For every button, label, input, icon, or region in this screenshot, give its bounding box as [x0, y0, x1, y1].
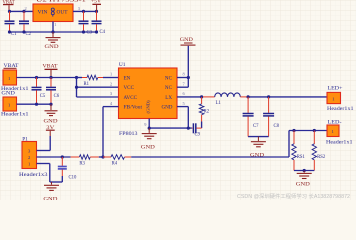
ground symbol below C7 C8	[250, 137, 266, 159]
header P4 LED+ label	[328, 87, 343, 92]
node VCC branch	[75, 86, 78, 89]
node C7 top	[247, 95, 250, 98]
ground symbol top section	[45, 32, 61, 50]
wire P1 pin3 to 3V	[37, 150, 51, 152]
svg-text:VCC: VCC	[124, 85, 135, 91]
svg-text:R4: R4	[112, 162, 118, 167]
pin number 7 (U1)	[183, 81, 186, 86]
svg-text:C2: C2	[26, 32, 32, 37]
svg-text:1: 1	[54, 22, 56, 27]
svg-text:R2: R2	[204, 110, 210, 115]
resistor R1	[77, 75, 119, 87]
header P1 designator	[22, 137, 28, 143]
node regulator GND	[51, 30, 54, 33]
wire ground net to C9	[149, 127, 192, 129]
svg-text:GND: GND	[45, 45, 60, 50]
capacitor C8	[263, 97, 280, 137]
power port VBAT (top left)	[3, 0, 16, 11]
wire GND to NC pins	[187, 46, 189, 87]
wire R4 to sense resistors	[131, 131, 327, 158]
resistor RS2	[312, 131, 326, 171]
header P5 LED- label	[328, 121, 342, 126]
ground symbol below P1	[43, 182, 59, 203]
svg-text:GND: GND	[43, 198, 58, 201]
label C3	[87, 31, 93, 36]
node C6 bottom	[49, 103, 52, 106]
node FB junction	[101, 155, 104, 158]
wire pin 5 GND	[177, 107, 188, 129]
svg-text:U1: U1	[119, 62, 126, 68]
svg-text:L1: L1	[216, 101, 222, 106]
svg-text:C9: C9	[195, 132, 201, 137]
node NC tie	[187, 76, 190, 79]
header P2 VBAT label	[4, 64, 19, 69]
node C2 top	[22, 10, 25, 13]
node C1 bottom	[8, 30, 11, 33]
svg-text:AVCC: AVCC	[124, 95, 138, 101]
node pin5 drop	[187, 127, 190, 130]
svg-text:GND: GND	[250, 154, 265, 159]
pin number 1 (U1)	[110, 72, 112, 77]
svg-text:1: 1	[110, 72, 112, 77]
wire output to LED+	[248, 96, 327, 98]
ground symbol below U1	[141, 128, 157, 151]
svg-text:R1: R1	[84, 82, 90, 87]
label C1	[11, 32, 17, 37]
pin number 3	[78, 6, 81, 11]
capacitor C1	[5, 11, 15, 32]
header P4 (LED+ Header1x1)	[327, 92, 354, 112]
capacitor C5	[32, 78, 46, 105]
node C5 top	[35, 76, 38, 79]
svg-text:CSDN @深圳硬件工程师学习 长A13828798872: CSDN @深圳硬件工程师学习 长A13828798872	[237, 192, 350, 200]
pin number 6 (U1)	[183, 91, 186, 96]
svg-text:RS2: RS2	[317, 155, 326, 160]
wire GND header to capacitors	[17, 103, 52, 105]
node pin9	[148, 127, 151, 130]
svg-text:GND: GND	[161, 105, 172, 111]
node C3 top	[82, 10, 85, 13]
header P3 GND label	[1, 92, 15, 97]
capacitor C10	[58, 157, 77, 182]
node R1 junction	[75, 76, 78, 79]
resistor R3	[71, 155, 103, 167]
ground symbol below C6	[44, 104, 59, 124]
op-amp U1 FP8013	[119, 62, 178, 137]
svg-text:NC: NC	[165, 85, 173, 91]
node C4 bottom	[95, 30, 98, 33]
svg-text:LX: LX	[165, 95, 172, 101]
svg-text:VBAT: VBAT	[43, 63, 59, 69]
regulator U2 designator text (clipped at top)	[36, 0, 87, 3]
wire VBAT to regulator VIN	[9, 10, 33, 12]
node RS bottom	[303, 169, 306, 172]
node LX	[200, 95, 203, 98]
svg-text:Header1x1: Header1x1	[1, 113, 29, 118]
wire P1 pin2	[37, 156, 71, 158]
watermark	[237, 192, 350, 200]
node C8 top	[267, 95, 270, 98]
header P2 (VBAT Header1x1)	[1, 70, 29, 92]
svg-text:U2 HT7533-1: U2 HT7533-1	[36, 0, 87, 3]
node RS2 top	[313, 129, 316, 132]
svg-text:FP8013: FP8013	[119, 131, 138, 137]
node RS1 top	[292, 129, 295, 132]
node C5 bottom	[35, 103, 38, 106]
wire LX output	[177, 96, 203, 98]
wire pin 9 ground net	[148, 119, 150, 129]
wire P1 pin1 to ground	[37, 164, 63, 183]
capacitor C2	[19, 11, 29, 32]
svg-text:C8: C8	[274, 124, 280, 129]
node C3 bottom	[82, 30, 85, 33]
node C6 top	[49, 76, 52, 79]
resistor R4	[103, 155, 131, 167]
svg-text:EN: EN	[124, 75, 131, 81]
wire regulator OUT to +5V	[73, 10, 97, 12]
pin number 2	[25, 6, 27, 11]
power port GND above U1	[180, 38, 196, 45]
regulator U2	[33, 4, 73, 22]
svg-text:GND: GND	[180, 38, 194, 43]
svg-text:(GND): (GND)	[146, 100, 151, 113]
svg-text:C5: C5	[40, 94, 46, 99]
node C2 bottom	[22, 30, 25, 33]
svg-text:GND: GND	[44, 119, 59, 124]
svg-text:C4: C4	[100, 30, 106, 35]
svg-text:C7: C7	[253, 124, 259, 129]
svg-text:GND: GND	[141, 146, 156, 151]
svg-text:OUT: OUT	[57, 11, 68, 16]
wire VCC/AVCC bus	[77, 78, 119, 98]
svg-text:2: 2	[25, 6, 27, 11]
svg-text:C1: C1	[11, 32, 17, 37]
pin number 4 (U1)	[110, 101, 113, 106]
wire C7 C8 bottom	[248, 136, 269, 138]
label C4	[100, 30, 106, 35]
svg-text:RS1: RS1	[297, 155, 306, 160]
power port 3V	[46, 125, 55, 151]
svg-text:C10: C10	[69, 176, 77, 181]
svg-text:FB/Vout: FB/Vout	[124, 105, 143, 111]
wire VBAT rail	[17, 77, 77, 79]
power port VBAT (middle)	[43, 63, 59, 77]
svg-text:VIN: VIN	[38, 11, 49, 16]
pin number 9 (U1)	[144, 122, 147, 127]
capacitor C7	[243, 97, 260, 137]
ground symbol below RS	[296, 171, 312, 188]
svg-text:C3: C3	[87, 31, 93, 36]
resistor RS1	[292, 131, 306, 171]
svg-text:Header1x3: Header1x3	[19, 173, 48, 178]
capacitor C9	[192, 123, 202, 137]
pin number 3 (U1)	[110, 91, 113, 96]
wire pin 7	[177, 86, 188, 88]
capacitor C6	[46, 78, 60, 105]
pin number 5 (U1)	[183, 101, 186, 106]
wire pin 8	[177, 77, 188, 79]
svg-text:GND: GND	[1, 92, 15, 97]
svg-text:Header1x1: Header1x1	[327, 107, 354, 112]
regulator GND pin wire	[53, 22, 57, 33]
svg-text:LED+: LED+	[328, 87, 343, 92]
svg-text:GND: GND	[296, 182, 311, 187]
node C10 top	[61, 155, 64, 158]
node C4 top	[95, 10, 98, 13]
pin number 2 (U1)	[110, 81, 112, 86]
capacitor C3	[79, 11, 89, 32]
header P5 (LED- Header1x1)	[326, 125, 353, 146]
wire FB/Vout feedback	[103, 107, 119, 157]
wire ground rail top section	[10, 31, 97, 33]
wire RS bottoms	[294, 170, 314, 172]
svg-text:2: 2	[110, 81, 112, 86]
svg-text:R3: R3	[79, 162, 85, 167]
power port +5V (clipped at top)	[91, 0, 101, 11]
header P1 (Header1x3)	[19, 142, 48, 179]
node C1 top	[8, 10, 11, 13]
svg-text:NC: NC	[165, 75, 173, 81]
svg-text:Header1x1: Header1x1	[326, 141, 353, 146]
inductor L1	[203, 93, 248, 106]
label C2	[26, 32, 32, 37]
pin number 8 (U1)	[183, 72, 186, 77]
svg-text:C6: C6	[54, 94, 60, 99]
capacitor C4	[92, 11, 102, 32]
header P3 (GND Header1x1)	[1, 97, 29, 118]
resistor R2	[199, 97, 209, 128]
